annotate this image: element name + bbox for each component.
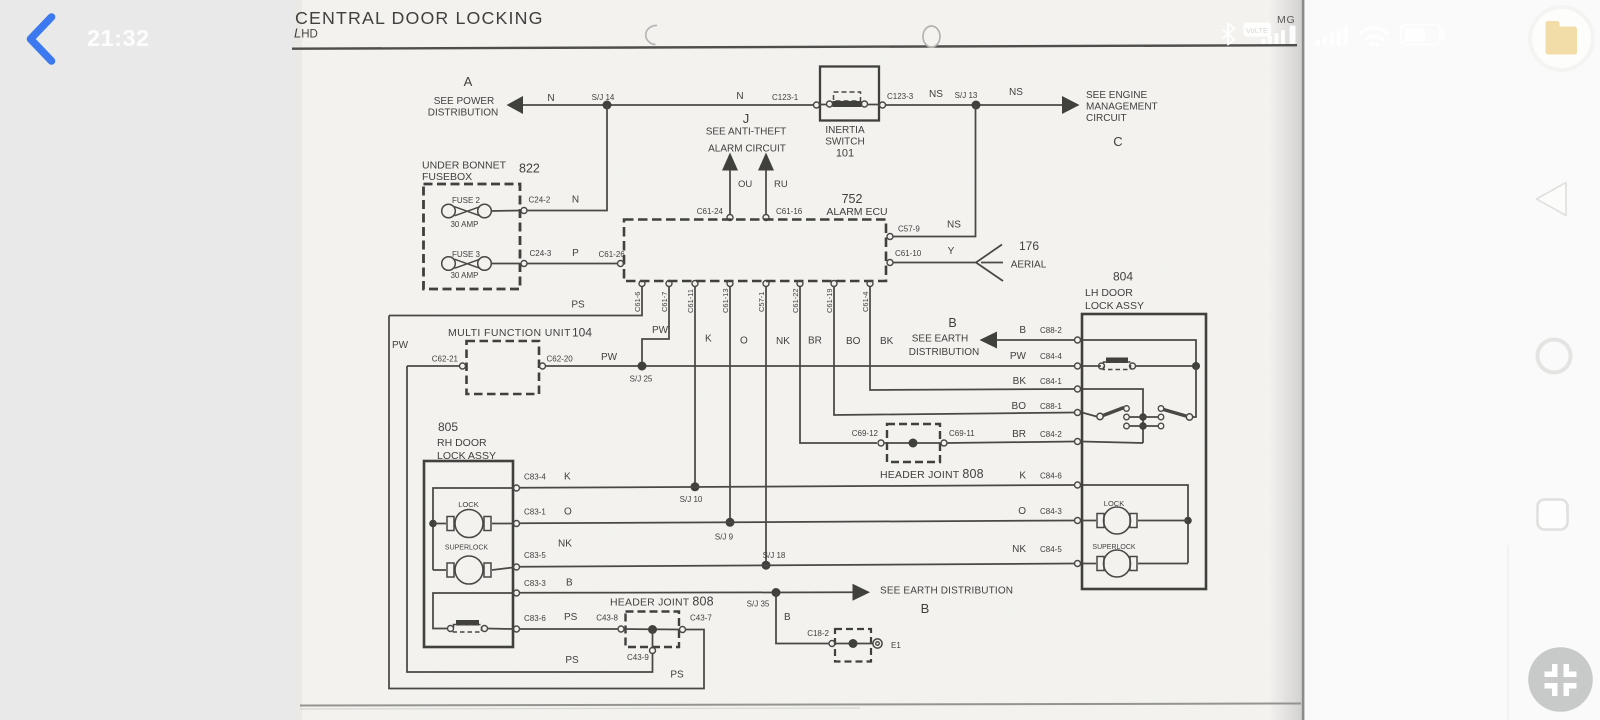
connector C57-1 bbox=[763, 281, 769, 287]
LH pin connector C88-1 bbox=[1075, 410, 1081, 416]
page bottom scan line faint second bbox=[300, 708, 860, 709]
folder icon tab bbox=[1546, 21, 1560, 28]
inertia switch element end circles bbox=[827, 101, 833, 107]
LH interior wire PW to resistor bbox=[1082, 365, 1101, 367]
collapse FAB icon bbox=[1545, 664, 1577, 696]
wire O: C61-13 down to S/J 9 bbox=[729, 287, 731, 523]
status icon VoLTE badge bbox=[1244, 23, 1272, 37]
connector C24-2 bbox=[521, 208, 527, 214]
connector C69-12 bbox=[878, 440, 884, 446]
junction S/J 10 bbox=[691, 482, 700, 491]
folder icon body bbox=[1546, 27, 1578, 55]
RH pin connector C83-3 bbox=[514, 590, 520, 596]
svg-text:21:32: 21:32 bbox=[87, 25, 150, 51]
wire BR: C61-22 down and right to C69-12 bbox=[800, 287, 877, 444]
switch LH superlock (right half) blade bbox=[1164, 410, 1187, 417]
fuse F3 symbol bbox=[442, 257, 456, 271]
junction dots on BK/BR trunk bbox=[1139, 413, 1147, 421]
wire PS: C43-9 down and left to inner trunk bbox=[407, 366, 653, 672]
motor SUPERLOCK LH bbox=[1097, 557, 1104, 571]
wire B: arrow to LH door C88-2 bbox=[997, 339, 1074, 341]
junction dot PW/B bbox=[1192, 362, 1200, 370]
wire O: RH C83-1 to LH C84-3 bbox=[520, 521, 1075, 524]
wire PW: C61-7 down to S/J 25 bbox=[642, 287, 669, 362]
wire BK: C61-4 down and right to LH door C84-1 bbox=[870, 287, 1074, 391]
connector C61-22 bbox=[797, 281, 803, 287]
wire B: RH C83-3 to earth arrow bbox=[520, 591, 853, 594]
RH pin connector C83-1 bbox=[514, 521, 520, 527]
wire inside header joint 808 upper bbox=[884, 442, 941, 444]
arrow to power distribution bbox=[507, 96, 524, 114]
wire OU: arrow to C61-24 bbox=[729, 171, 731, 215]
wire inside header joint 808 lower bbox=[624, 628, 679, 631]
status icon signal bars 1 bbox=[1262, 26, 1296, 45]
LH door lock assy 804 box bbox=[1082, 314, 1206, 589]
wire N: arrow to inertia switch bbox=[523, 104, 814, 106]
LH pin connector C84-4 bbox=[1075, 363, 1081, 369]
scan curl mark right (circle on rule) bbox=[923, 26, 940, 47]
LH interior wire NK to superlock motor bbox=[1082, 563, 1096, 565]
wire PS: RH C83-6 to C43-8 bbox=[520, 628, 618, 630]
wire dot to C43-9 bbox=[652, 630, 654, 648]
switch LH lock (left half) pivot bbox=[1097, 413, 1103, 419]
RH pin connector C83-6 bbox=[514, 626, 520, 632]
under bonnet fusebox 822 dashed box bbox=[424, 184, 521, 289]
connector C62-20 bbox=[540, 363, 546, 369]
junction dot header joint 808 lower bbox=[648, 625, 657, 634]
alarm ECU 752 dashed box bbox=[624, 220, 886, 282]
connector C43-7 bbox=[680, 627, 686, 633]
fuse F2 symbol bbox=[442, 204, 456, 218]
wire P: C24-3 to alarm ECU bbox=[527, 263, 618, 265]
motor SUPERLOCK RH bbox=[433, 569, 446, 571]
LH pin connector C84-3 bbox=[1075, 518, 1081, 524]
connector C61-7 bbox=[666, 281, 672, 287]
connector C61-16 bbox=[763, 215, 769, 221]
nav back triangle bbox=[1537, 183, 1567, 216]
arrow from earth distribution (left-pointing) bbox=[980, 332, 998, 349]
RH interior wire B to resistor bbox=[433, 593, 513, 629]
multi function unit 104 dashed box bbox=[467, 341, 540, 394]
junction S/J 14 bbox=[603, 101, 612, 110]
arrow to engine management circuit bbox=[1062, 96, 1080, 114]
RH interior wire K to trunk bbox=[433, 488, 513, 570]
wire BO: C61-19 down and right to LH door C88-1 bbox=[834, 287, 1074, 416]
nav home ring bbox=[1538, 340, 1571, 373]
wire PS: C61-6 to outer left trunk bbox=[389, 287, 642, 316]
junction dot C18-2 bbox=[849, 639, 858, 648]
connector C61-11 bbox=[692, 281, 698, 287]
status icon signal bars 2 bbox=[1316, 26, 1349, 46]
junction dot header joint 808 upper bbox=[909, 439, 918, 448]
switch LH superlock pivot bbox=[1186, 414, 1192, 420]
scanned page background bbox=[294, 0, 1303, 720]
status icon bluetooth bbox=[1223, 24, 1235, 45]
header joint 808 (upper) dashed box bbox=[887, 424, 940, 462]
scan curl mark left bbox=[646, 25, 657, 44]
LH pin connector C84-2 bbox=[1075, 439, 1081, 445]
title rule bbox=[292, 45, 1297, 49]
wire NS: C57-9 to S/J 13 bbox=[893, 105, 976, 237]
switch LH left contacts bbox=[1124, 406, 1130, 412]
wire PS: C62-21 to inner left trunk bbox=[407, 365, 460, 367]
junction S/J 18 bbox=[762, 561, 771, 570]
wire NK: C57-1 down to S/J 18 bbox=[765, 287, 767, 566]
connector C61-6 bbox=[639, 281, 645, 287]
junction S/J 13 bbox=[972, 101, 981, 110]
folder button shadow bbox=[1528, 5, 1595, 72]
connector C18-2 bbox=[829, 641, 835, 647]
LH interior wire O to lock motor bbox=[1082, 520, 1096, 522]
LH interior wire BO to left switch pivot bbox=[1082, 413, 1097, 417]
collapse FAB circle bbox=[1528, 647, 1593, 712]
status icon battery bbox=[1401, 25, 1445, 45]
RH pin connector C83-5 bbox=[514, 564, 520, 570]
svg-text:VoLTE: VoLTE bbox=[1246, 26, 1268, 35]
wire K: RH C83-4 to LH C84-6 bbox=[520, 485, 1075, 488]
connector C61-26 bbox=[618, 261, 624, 267]
inertia switch element dashed cap bbox=[834, 92, 861, 101]
wire N: S/J 14 down to fusebox bbox=[527, 105, 607, 211]
wire K: C61-11 down to S/J 10 bbox=[694, 287, 696, 487]
junction dot K/motors bbox=[1184, 517, 1192, 525]
page right edge shading bbox=[1266, 0, 1302, 720]
wire Y: C61-10 to aerial bbox=[893, 262, 976, 264]
LH wire resistor to junction bbox=[1136, 365, 1197, 367]
back chevron (blue) bbox=[31, 17, 52, 61]
connector C24-3 bbox=[521, 261, 527, 267]
LH interior wire BR bbox=[1082, 442, 1143, 444]
motor LOCK RH bbox=[433, 523, 446, 525]
connector C57-9 bbox=[887, 234, 893, 240]
connector C61-24 bbox=[727, 215, 733, 221]
RH door lock assy 805 box bbox=[424, 461, 513, 647]
wire PW: C62-20 through S/J 25 to LH door C84-4 bbox=[546, 365, 1075, 367]
connector C123-1 bbox=[814, 102, 820, 108]
faint panel edge bottom right bbox=[1507, 545, 1509, 720]
wire inside C18-2 box bbox=[835, 643, 873, 645]
connector C61-4 bbox=[867, 281, 873, 287]
motor LOCK LH bbox=[1097, 514, 1104, 528]
wire RU: arrow to C61-16 bbox=[765, 171, 767, 215]
connector C123-3 bbox=[880, 102, 886, 108]
resistor RH door bbox=[448, 626, 454, 632]
arrow up OU bbox=[722, 153, 738, 171]
status icon wifi bbox=[1361, 28, 1388, 45]
wire P: fuse 3 to C61-26 bbox=[492, 263, 521, 265]
LH pin connector C84-6 bbox=[1075, 482, 1081, 488]
switch LH lock (left half) blade bbox=[1103, 408, 1124, 416]
arrow to earth distribution (right-pointing) bbox=[853, 584, 871, 601]
app background left band bbox=[0, 0, 294, 720]
aerial 176 fan symbol bbox=[976, 245, 1003, 282]
switch link wires bbox=[1130, 416, 1159, 418]
wire PS: C43-7 right and down to outer loop bbox=[389, 316, 704, 689]
inertia switch element solid bar bbox=[833, 101, 862, 107]
LH pin connector C84-1 bbox=[1075, 386, 1081, 392]
LH interior wire B bbox=[1082, 340, 1196, 366]
connector C69-11 bbox=[941, 440, 947, 446]
connector C61-13 bbox=[727, 281, 733, 287]
scanned page grain bbox=[294, 0, 1303, 720]
connector C43-8 bbox=[618, 626, 624, 632]
page left edge subtle shade bbox=[294, 0, 302, 720]
nav recents square bbox=[1538, 500, 1568, 530]
arrow up RU bbox=[758, 153, 774, 171]
junction S/J 9 bbox=[726, 518, 735, 527]
connector C43-9 bbox=[650, 648, 656, 654]
switch LH right contacts bbox=[1158, 406, 1164, 412]
earth eyelet E1 bbox=[873, 639, 882, 648]
RH interior wire resistor to PS pin bbox=[488, 628, 514, 631]
wire B: S/J 35 down to C18-2 bbox=[776, 593, 829, 644]
inertia switch element stubs bbox=[820, 104, 827, 106]
LH interior wire BK bbox=[1082, 389, 1143, 443]
header joint 808 (lower) dashed box bbox=[626, 612, 680, 648]
junction S/J 35 bbox=[772, 588, 781, 597]
page bottom scan line bbox=[300, 704, 1301, 706]
wire fuse 2 to C24-2 bbox=[492, 210, 521, 213]
connector C61-19 bbox=[831, 281, 837, 287]
RH junction dot on trunk bbox=[429, 520, 437, 528]
wire NS: inertia switch to engine management arrow bbox=[886, 104, 1063, 106]
LH pin connector C88-2 bbox=[1075, 337, 1081, 343]
LH pin connector C84-5 bbox=[1075, 561, 1081, 567]
RH pin connector C83-4 bbox=[514, 485, 520, 491]
page right edge dark line bbox=[1302, 0, 1305, 720]
connector C61-10 bbox=[887, 260, 893, 266]
LH interior wire K bbox=[1082, 485, 1188, 563]
wire BR: C69-11 to LH door C84-2 bbox=[947, 442, 1074, 444]
junction S/J 25 bbox=[638, 362, 647, 371]
connector C62-21 bbox=[460, 363, 466, 369]
earth connector C18-2 dashed box bbox=[835, 629, 871, 662]
LH wire junction down to right switch pivot bbox=[1193, 366, 1197, 417]
resistor LH door bbox=[1099, 363, 1105, 369]
wire NK: RH C83-5 to LH C84-5 bbox=[520, 564, 1075, 567]
inertia switch box bbox=[820, 67, 879, 121]
folder button circle bbox=[1532, 9, 1591, 68]
app background right band bbox=[1303, 0, 1600, 720]
